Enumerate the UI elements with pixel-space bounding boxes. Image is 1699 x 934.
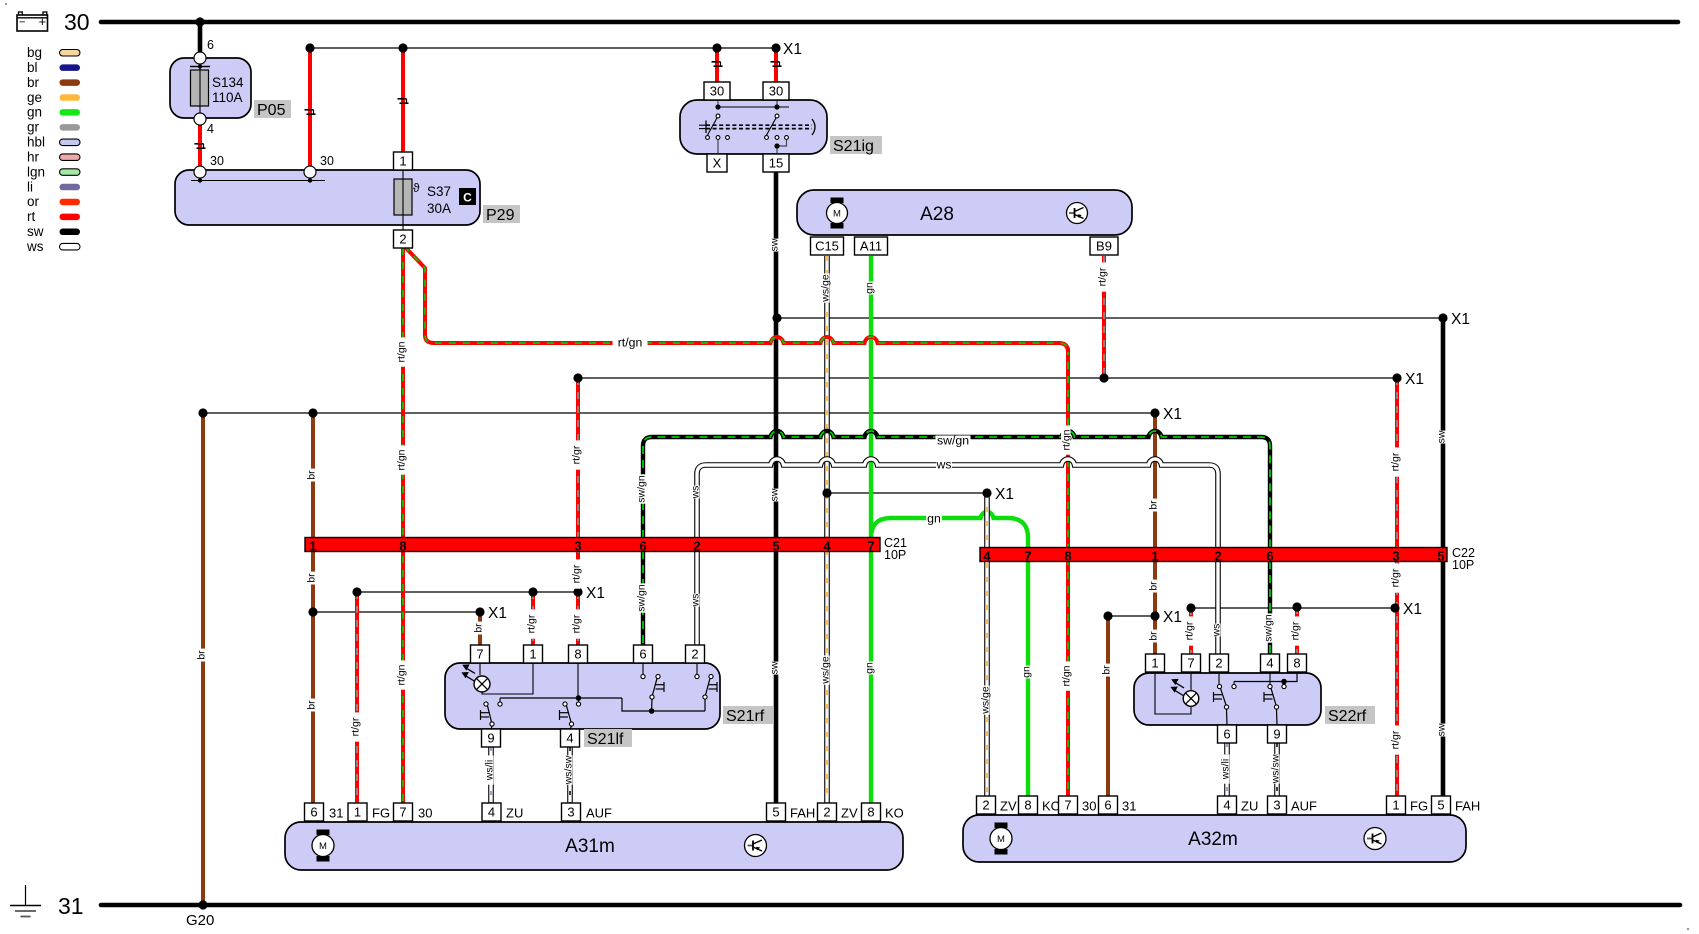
pin box S21lf 9 [482, 729, 501, 747]
pin box P29 pin1 [394, 152, 413, 170]
svg-text:gn: gn [864, 282, 876, 294]
node dots X1 line y=48 [305, 43, 314, 52]
svg-text:rt/gr: rt/gr [1290, 621, 1302, 640]
ground symbol G [25, 885, 27, 906]
label rt/gr C21pin3 [571, 440, 583, 469]
label ws/sw right [1270, 754, 1282, 784]
label P05 [254, 100, 291, 118]
window switch S21rf box [445, 663, 720, 729]
svg-text:31: 31 [58, 893, 84, 919]
pin box S22rf 1 [1146, 654, 1165, 672]
svg-text:1: 1 [309, 539, 316, 554]
fuse S37 30A [394, 179, 412, 215]
svg-text:3: 3 [1392, 549, 1399, 564]
svg-text:hbl: hbl [27, 135, 45, 150]
wire sw S21ig pin15 to A31m pin5 FAH [774, 172, 779, 803]
svg-text:AUF: AUF [1291, 799, 1317, 814]
label sw vertical c [769, 661, 781, 674]
svg-text:br: br [1148, 581, 1160, 591]
svg-text:1: 1 [1392, 798, 1399, 813]
P29 internal bus line [191, 180, 325, 182]
label br G20 wire [196, 649, 208, 662]
svg-text:X: X [713, 156, 722, 171]
A28 motor icon [831, 198, 844, 204]
break symbol X1-P29 30b [305, 109, 314, 111]
pin box A28 B9 [1090, 237, 1118, 255]
svg-text:or: or [27, 194, 40, 209]
svg-text:2: 2 [691, 647, 698, 662]
S21ig switch contacts [716, 114, 720, 118]
label br left a [306, 469, 318, 482]
door module A31m box [285, 822, 903, 870]
pin box A31m 6 31 [305, 803, 324, 821]
wire ws C22 pin2 to S22rf pin2 [1215, 561, 1221, 654]
svg-text:rt/gn: rt/gn [396, 449, 408, 470]
svg-text:6: 6 [207, 38, 214, 52]
wire ws/ge C15 to A31m pin2 ZV [824, 256, 830, 803]
svg-text:30: 30 [210, 154, 224, 168]
svg-text:gn: gn [927, 512, 941, 526]
S21ig internal bus [717, 100, 719, 107]
svg-text:rt/gn: rt/gn [618, 336, 643, 350]
S22rf lamp [1190, 672, 1192, 691]
wire sw X1 to A32m pin5 FAH right [1441, 318, 1446, 797]
wire sw/gn C21 pin6 to S21rf pin6 [641, 551, 645, 645]
svg-text:ws/ge: ws/ge [820, 274, 832, 303]
label br left b [306, 572, 318, 585]
svg-text:P29: P29 [486, 207, 515, 224]
wire X1 line y=493 ws/ge link [827, 492, 987, 494]
svg-text:S21rf: S21rf [726, 708, 765, 725]
pin box A28 C15 [811, 237, 844, 255]
node dots y=608 right [1186, 603, 1195, 612]
S21rf pin8 node wire [577, 663, 579, 698]
label S21ig [830, 136, 882, 154]
svg-text:gn: gn [864, 662, 876, 674]
svg-text:br: br [1148, 631, 1160, 641]
svg-text:9: 9 [1273, 727, 1280, 742]
svg-text:rt/gr: rt/gr [1390, 452, 1402, 471]
label P29 [483, 205, 520, 223]
svg-text:ge: ge [27, 90, 42, 105]
node dot bus30 at P05 [195, 17, 204, 26]
node dots y=616 right [1103, 611, 1112, 620]
wire rt/gn branch P29 pin2 to C22 pin8 horizontal [404, 246, 1068, 352]
label gn left a [864, 282, 876, 295]
wire rt/gr X1 to S21rf pin8 [576, 592, 580, 645]
svg-text:ws/ge: ws/ge [980, 686, 992, 715]
label ws/li right [1220, 754, 1232, 783]
svg-text:br: br [1101, 665, 1113, 675]
svg-text:li: li [27, 179, 33, 194]
label br right c [1148, 630, 1160, 643]
svg-text:6: 6 [1223, 727, 1230, 742]
label sw vertical a [769, 238, 781, 251]
svg-text:ZV: ZV [1000, 799, 1017, 814]
svg-text:sw: sw [769, 488, 781, 501]
svg-text:P05: P05 [257, 102, 286, 119]
svg-text:ws/li: ws/li [1220, 759, 1232, 780]
svg-text:7: 7 [867, 539, 874, 554]
svg-text:−: − [19, 17, 25, 29]
svg-text:4: 4 [983, 549, 991, 564]
svg-text:ϑ: ϑ [413, 181, 420, 195]
svg-text:X1: X1 [783, 41, 802, 58]
wire br X1 to A32m pin6 31 [1106, 616, 1110, 797]
wire rt/gr X1 to S22rf pin7 [1189, 608, 1193, 654]
wire gn branch to C22 pin7 to A32m pin8 KO [871, 512, 1028, 797]
label br left c [306, 699, 318, 712]
pin box A32m 1 FG [1387, 796, 1406, 814]
svg-text:rt/gr: rt/gr [571, 614, 583, 633]
svg-text:1: 1 [399, 154, 406, 169]
label ws horizontal [936, 460, 952, 471]
S21rf switch pin6 [642, 663, 644, 674]
pin box S22rf 9 [1268, 725, 1287, 743]
pin box S21ig 15 [763, 154, 789, 172]
svg-text:4: 4 [1266, 656, 1273, 671]
label rt/gr C21pin3 low [571, 559, 583, 588]
node dot G20 on bus31 [198, 900, 207, 909]
wire ws C21 pin2 link to C22 pin2 [697, 459, 1218, 548]
svg-text:bg: bg [27, 45, 42, 60]
node X1 dot y=318 right [1438, 313, 1447, 322]
svg-text:S37: S37 [427, 184, 451, 199]
node dots y=378 [573, 373, 582, 382]
pin box S22rf 7 [1182, 654, 1201, 672]
svg-text:sw: sw [1436, 723, 1448, 736]
svg-text:2: 2 [1215, 656, 1222, 671]
svg-text:6: 6 [639, 539, 646, 554]
svg-text:rt: rt [27, 209, 35, 224]
svg-text:sw/gn: sw/gn [937, 434, 969, 448]
wire sw battery feed to P05 pin6 [198, 22, 203, 53]
svg-text:30: 30 [418, 806, 432, 821]
svg-text:3: 3 [567, 805, 574, 820]
svg-text:rt/gr: rt/gr [1390, 568, 1402, 587]
svg-text:S22rf: S22rf [1328, 708, 1367, 725]
svg-text:br: br [473, 623, 485, 633]
label sw/gn right [1263, 613, 1275, 642]
fuse box P05 [170, 58, 251, 118]
svg-text:rt/gr: rt/gr [350, 717, 362, 736]
svg-text:KO: KO [885, 806, 904, 821]
wire ws/li S22rf pin6 to A32m pin4 ZU [1224, 743, 1230, 796]
svg-text:sw/gn: sw/gn [1263, 614, 1275, 642]
svg-text:FG: FG [1410, 799, 1428, 814]
S21rf node line [500, 697, 622, 699]
wire br X1 to C21 pin1 to A31m pin6 31 [311, 413, 315, 803]
break symbol S21ig 30a [712, 61, 721, 63]
S21rf switch pin2 [696, 663, 698, 674]
pin box S21ig 30a [704, 82, 730, 100]
svg-text:ZV: ZV [841, 806, 858, 821]
wire rt P05 pin4 to P29 pin30 [198, 125, 202, 167]
wire X1 line y=318 sw link [777, 317, 1443, 319]
label rt/gn left b [396, 445, 408, 474]
label ws/ge left a [820, 273, 832, 302]
label rt/gr right b [1390, 563, 1402, 592]
S22rf switch pin2 [1218, 672, 1220, 685]
wire X1 line y=608 rt/gr link right [1191, 607, 1395, 609]
svg-text:rt/gn: rt/gn [1061, 665, 1073, 686]
wire sw/gn C21 pin6 link to C22 pin6 [643, 431, 1270, 548]
svg-text:C15: C15 [815, 239, 839, 254]
A28 transistor icon [1067, 203, 1088, 224]
S21ig wire to pin X [717, 140, 719, 155]
svg-text:G20: G20 [186, 912, 214, 929]
wire br X1 to S21rf pin7 [478, 612, 482, 645]
svg-text:A11: A11 [860, 239, 882, 254]
break symbol P05-P29 [195, 143, 204, 145]
svg-text:hr: hr [27, 149, 40, 164]
fuse S134 110A [191, 70, 209, 106]
wire rt/gr B9 to X1 line [1102, 256, 1106, 378]
label rt/gr B9 [1097, 262, 1109, 291]
A32m motor icon [995, 823, 1008, 829]
svg-text:FAH: FAH [790, 806, 815, 821]
pin box A32m 7 30 [1059, 796, 1078, 814]
pin box P29 pin2 [394, 230, 413, 248]
connector C22 10P bus [980, 548, 1447, 562]
label gn left b [864, 662, 876, 675]
svg-text:X1: X1 [1405, 371, 1424, 388]
svg-text:X1: X1 [995, 486, 1014, 503]
label rt/gr S22rf8 [1290, 616, 1302, 645]
label S21lf [584, 729, 632, 747]
wire rt X1 to P29 pin1 [401, 48, 405, 152]
svg-text:B9: B9 [1096, 239, 1112, 254]
svg-text:ws/li: ws/li [484, 760, 496, 781]
wire rt/gn P29 pin2 to C21 pin8 to A31m pin7 30 [401, 248, 405, 803]
wire ws/ge X1 to C22 pin4 to A32m pin2 ZV [984, 493, 990, 797]
pin box S21rf 2 [686, 645, 705, 663]
svg-text:30: 30 [64, 9, 90, 35]
svg-text:30: 30 [710, 84, 724, 99]
svg-text:6: 6 [639, 647, 646, 662]
svg-text:9: 9 [487, 731, 494, 746]
svg-text:ws: ws [935, 458, 951, 472]
wire br G20 ground drop [201, 413, 205, 905]
pin box A28 A11 [855, 237, 888, 255]
svg-text:4: 4 [488, 805, 495, 820]
svg-text:8: 8 [1293, 656, 1300, 671]
wire ws/li S21lf pin9 to A31m pin4 ZU [488, 747, 494, 803]
svg-text:AUF: AUF [586, 806, 612, 821]
svg-text:7: 7 [1187, 656, 1194, 671]
svg-text:sw: sw [769, 238, 781, 251]
A31m motor icon [317, 830, 330, 836]
wire X1 line y=612 br link left [313, 611, 480, 613]
svg-text:rt/gr: rt/gr [571, 445, 583, 464]
svg-text:1: 1 [1151, 656, 1158, 671]
label br right d [1101, 664, 1113, 677]
svg-text:2: 2 [1214, 549, 1221, 564]
svg-text:5: 5 [772, 539, 779, 554]
svg-text:31: 31 [1122, 799, 1136, 814]
svg-text:ws/ge: ws/ge [820, 656, 832, 685]
pin box S21rf 1 [524, 645, 543, 663]
pin box S22rf 6 [1218, 725, 1237, 743]
label ws/ge right [980, 685, 992, 714]
svg-text:rt/gn: rt/gn [1061, 429, 1073, 450]
svg-text:rt/gr: rt/gr [1097, 267, 1109, 286]
S22rf pin1 to lamp wire [1155, 672, 1191, 714]
label ws/sw left [563, 755, 575, 785]
svg-text:A32m: A32m [1188, 829, 1238, 850]
wire gn A11 to C21 pin7 to A31m pin8 KO [869, 256, 873, 803]
label rt/gn left c [396, 660, 408, 689]
svg-text:30: 30 [320, 154, 334, 168]
S21rf switch lf9 [499, 698, 501, 702]
pin box A31m 1 FG [348, 803, 367, 821]
pin box S21lf 4 [561, 729, 580, 747]
svg-text:X1: X1 [1163, 406, 1182, 423]
svg-text:X1: X1 [488, 605, 507, 622]
label rt/gr S21rf1 [526, 609, 538, 638]
svg-text:X1: X1 [1403, 601, 1422, 618]
svg-text:ws/sw: ws/sw [563, 755, 575, 785]
wire rt/gr C21 pin3 to X1 [576, 378, 580, 592]
svg-text:br: br [306, 700, 318, 710]
wire X1 line y=413 br ground link [203, 412, 1155, 414]
wire rt/gr X1 to C22 pin3 to A32m pin1 FG [1395, 378, 1399, 797]
wire X1 line y=378 rt/gr link [578, 377, 1397, 379]
pin box A32m 8 KO [1019, 796, 1038, 814]
wire sw/gn C22 pin6 to S22rf pin4 [1268, 561, 1272, 654]
A31m transistor icon [745, 835, 767, 857]
svg-text:sw: sw [769, 661, 781, 674]
svg-text:ws: ws [690, 486, 702, 500]
svg-text:C: C [463, 191, 472, 205]
svg-text:S21ig: S21ig [833, 138, 874, 155]
svg-text:110A: 110A [212, 90, 243, 105]
svg-text:1: 1 [354, 805, 361, 820]
svg-text:gn: gn [27, 105, 42, 120]
svg-text:rt/gn: rt/gn [396, 341, 408, 362]
connector C21 10P bus [305, 538, 880, 552]
wire rt X1 to P29 pin30b [308, 48, 312, 166]
svg-text:30: 30 [769, 84, 783, 99]
label ws left b [690, 594, 702, 608]
svg-text:31: 31 [329, 806, 343, 821]
label S21rf [723, 706, 773, 724]
svg-text:15: 15 [769, 156, 783, 171]
svg-text:8: 8 [399, 539, 406, 554]
label gn right [1021, 666, 1033, 679]
ignition switch S21ig box [680, 100, 827, 154]
label sw/gn left a [636, 474, 648, 503]
node dots y=493 [822, 488, 831, 497]
svg-text:sw: sw [1436, 430, 1448, 443]
S22rf pin8 node wire [1234, 672, 1297, 682]
svg-text:ZU: ZU [1241, 799, 1258, 814]
svg-text:4: 4 [1223, 798, 1230, 813]
svg-text:4: 4 [566, 731, 573, 746]
svg-text:ws: ws [690, 594, 702, 608]
svg-text:X1: X1 [1451, 311, 1470, 328]
svg-text:3: 3 [1273, 798, 1280, 813]
svg-text:5: 5 [1437, 798, 1444, 813]
svg-text:gr: gr [27, 120, 40, 135]
label sw right b [1436, 723, 1448, 736]
svg-text:rt/gr: rt/gr [1184, 621, 1196, 640]
label ws/ge left b [820, 655, 832, 684]
svg-text:X1: X1 [1163, 609, 1182, 626]
wire rt/gn to C22 pin8 to A32m pin7 30 vertical [1066, 348, 1070, 797]
wire ws/sw S21lf pin4 to A31m pin3 AUF [567, 747, 573, 803]
node dot sw at y=318 [772, 313, 781, 322]
control unit A28 box [797, 190, 1132, 235]
wire br X1 to C22 pin1 to S22rf pin1 [1153, 413, 1157, 654]
pin box S21rf 8 [569, 645, 588, 663]
wire rt/gr X1 to S21rf pin1 [531, 592, 535, 645]
svg-text:4: 4 [207, 122, 214, 136]
pin box A32m 6 31 [1099, 796, 1118, 814]
pin circle P05 pin6 [194, 52, 206, 64]
svg-text:ws/sw: ws/sw [1270, 754, 1282, 784]
svg-text:A31m: A31m [565, 836, 615, 857]
window switch S22rf box [1134, 673, 1321, 725]
S21ig contact row circles [706, 136, 710, 140]
label rt/gn right b [1061, 661, 1073, 690]
svg-text:rt/gr: rt/gr [571, 564, 583, 583]
svg-text:br: br [27, 75, 40, 90]
svg-text:2: 2 [823, 805, 830, 820]
label rt/gr S22rf7 [1184, 616, 1196, 645]
node dots y=592 [352, 587, 361, 596]
svg-text:6: 6 [1266, 549, 1273, 564]
pin box A31m 2 ZV [818, 803, 837, 821]
pin box A31m 7 30 [394, 803, 413, 821]
svg-text:7: 7 [399, 805, 406, 820]
wire X1 line top (30-feed) y=48 [310, 47, 776, 49]
label sw vertical b [769, 488, 781, 501]
svg-text:7: 7 [1064, 798, 1071, 813]
pin box S22rf 2 [1210, 654, 1229, 672]
svg-text:8: 8 [574, 647, 581, 662]
svg-text:A28: A28 [920, 204, 954, 225]
svg-text:5: 5 [772, 805, 779, 820]
pin box A31m 4 ZU [482, 803, 501, 821]
svg-text:6: 6 [310, 805, 317, 820]
pin circle P29 30a [194, 166, 206, 178]
svg-text:+: + [39, 14, 47, 29]
svg-text:2: 2 [982, 798, 989, 813]
svg-text:2: 2 [693, 539, 700, 554]
label S22rf [1325, 706, 1375, 724]
S21rf lamp [479, 663, 481, 675]
svg-text:rt/gn: rt/gn [396, 664, 408, 685]
pin box S22rf 4 [1261, 654, 1280, 672]
svg-text:sw: sw [27, 224, 44, 239]
svg-text:M: M [833, 209, 841, 220]
svg-text:8: 8 [1024, 798, 1031, 813]
label sw/gn horizontal [936, 436, 971, 447]
svg-text:br: br [196, 650, 208, 660]
label br right a [1148, 499, 1160, 512]
svg-text:br: br [306, 470, 318, 480]
fuse box P29 [175, 170, 480, 225]
svg-text:30A: 30A [427, 201, 451, 216]
S21rf lamp to pin1 wire [482, 663, 533, 694]
pin box S21ig X [707, 154, 727, 172]
svg-text:lgn: lgn [27, 164, 45, 179]
pin box A31m 3 AUF [562, 803, 581, 821]
svg-text:M: M [997, 834, 1005, 845]
pin box S21ig 30b [763, 82, 789, 100]
svg-text:X1: X1 [586, 585, 605, 602]
